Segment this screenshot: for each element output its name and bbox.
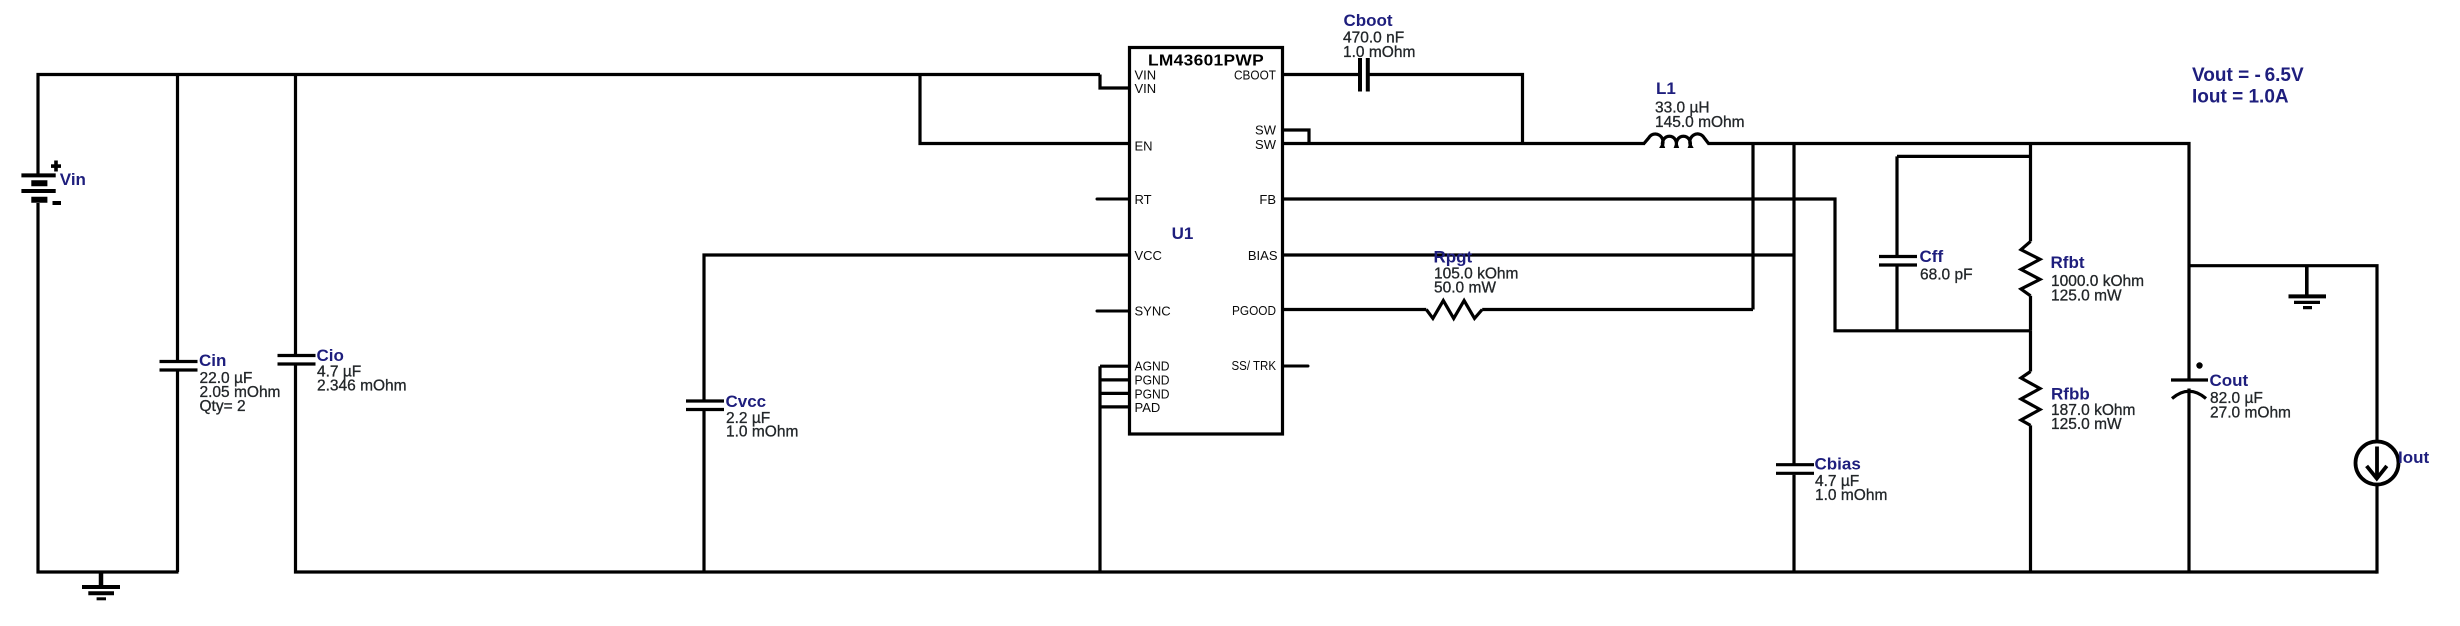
svg-text:CBOOT: CBOOT <box>1234 68 1276 83</box>
svg-text:U1: U1 <box>1172 224 1194 243</box>
svg-text:EN: EN <box>1135 139 1153 154</box>
svg-text:Vin: Vin <box>60 170 86 189</box>
svg-text:SW: SW <box>1255 137 1277 152</box>
svg-text:2.346 mOhm: 2.346 mOhm <box>317 378 407 395</box>
svg-text:RT: RT <box>1135 192 1152 207</box>
svg-text:Iout = 1.0A: Iout = 1.0A <box>2192 87 2289 108</box>
svg-text:AGND: AGND <box>1135 359 1170 374</box>
svg-text:SW: SW <box>1255 123 1277 138</box>
svg-text:Qty= 2: Qty= 2 <box>200 398 246 415</box>
svg-text:Cvcc: Cvcc <box>726 392 767 411</box>
svg-text:125.0 mW: 125.0 mW <box>2051 416 2122 433</box>
svg-text:Cff: Cff <box>1920 247 1944 266</box>
svg-text:Cin: Cin <box>199 351 226 370</box>
svg-text:1.0 mOhm: 1.0 mOhm <box>726 424 798 441</box>
svg-text:PAD: PAD <box>1135 400 1161 415</box>
svg-text:BIAS: BIAS <box>1248 248 1278 263</box>
svg-text:VCC: VCC <box>1135 248 1162 263</box>
svg-text:SS/ TRK: SS/ TRK <box>1232 358 1277 373</box>
svg-text:68.0 pF: 68.0 pF <box>1920 267 1973 284</box>
svg-text:50.0 mW: 50.0 mW <box>1434 280 1496 297</box>
svg-text:PGND: PGND <box>1135 372 1170 387</box>
svg-text:Rpgt: Rpgt <box>1434 248 1473 267</box>
svg-text:125.0 mW: 125.0 mW <box>2051 287 2122 304</box>
svg-text:27.0 mOhm: 27.0 mOhm <box>2210 405 2291 422</box>
svg-text:Rfbb: Rfbb <box>2051 385 2090 404</box>
svg-text:SYNC: SYNC <box>1135 304 1171 319</box>
svg-text:Cio: Cio <box>317 346 344 365</box>
svg-text:FB: FB <box>1259 192 1276 207</box>
svg-text:Vout = - 6.5V: Vout = - 6.5V <box>2192 65 2304 86</box>
svg-text:1.0 mOhm: 1.0 mOhm <box>1343 44 1415 61</box>
svg-text:145.0 mOhm: 145.0 mOhm <box>1655 114 1745 131</box>
svg-text:Iout: Iout <box>2398 448 2429 467</box>
svg-text:VIN: VIN <box>1135 81 1157 96</box>
svg-text:Cbias: Cbias <box>1815 455 1861 474</box>
svg-text:Cout: Cout <box>2210 371 2249 390</box>
svg-text:Cboot: Cboot <box>1344 11 1393 30</box>
svg-text:Rfbt: Rfbt <box>2051 253 2085 272</box>
svg-text:PGOOD: PGOOD <box>1232 303 1276 318</box>
svg-text:L1: L1 <box>1656 79 1676 98</box>
svg-text:1.0 mOhm: 1.0 mOhm <box>1815 487 1887 504</box>
